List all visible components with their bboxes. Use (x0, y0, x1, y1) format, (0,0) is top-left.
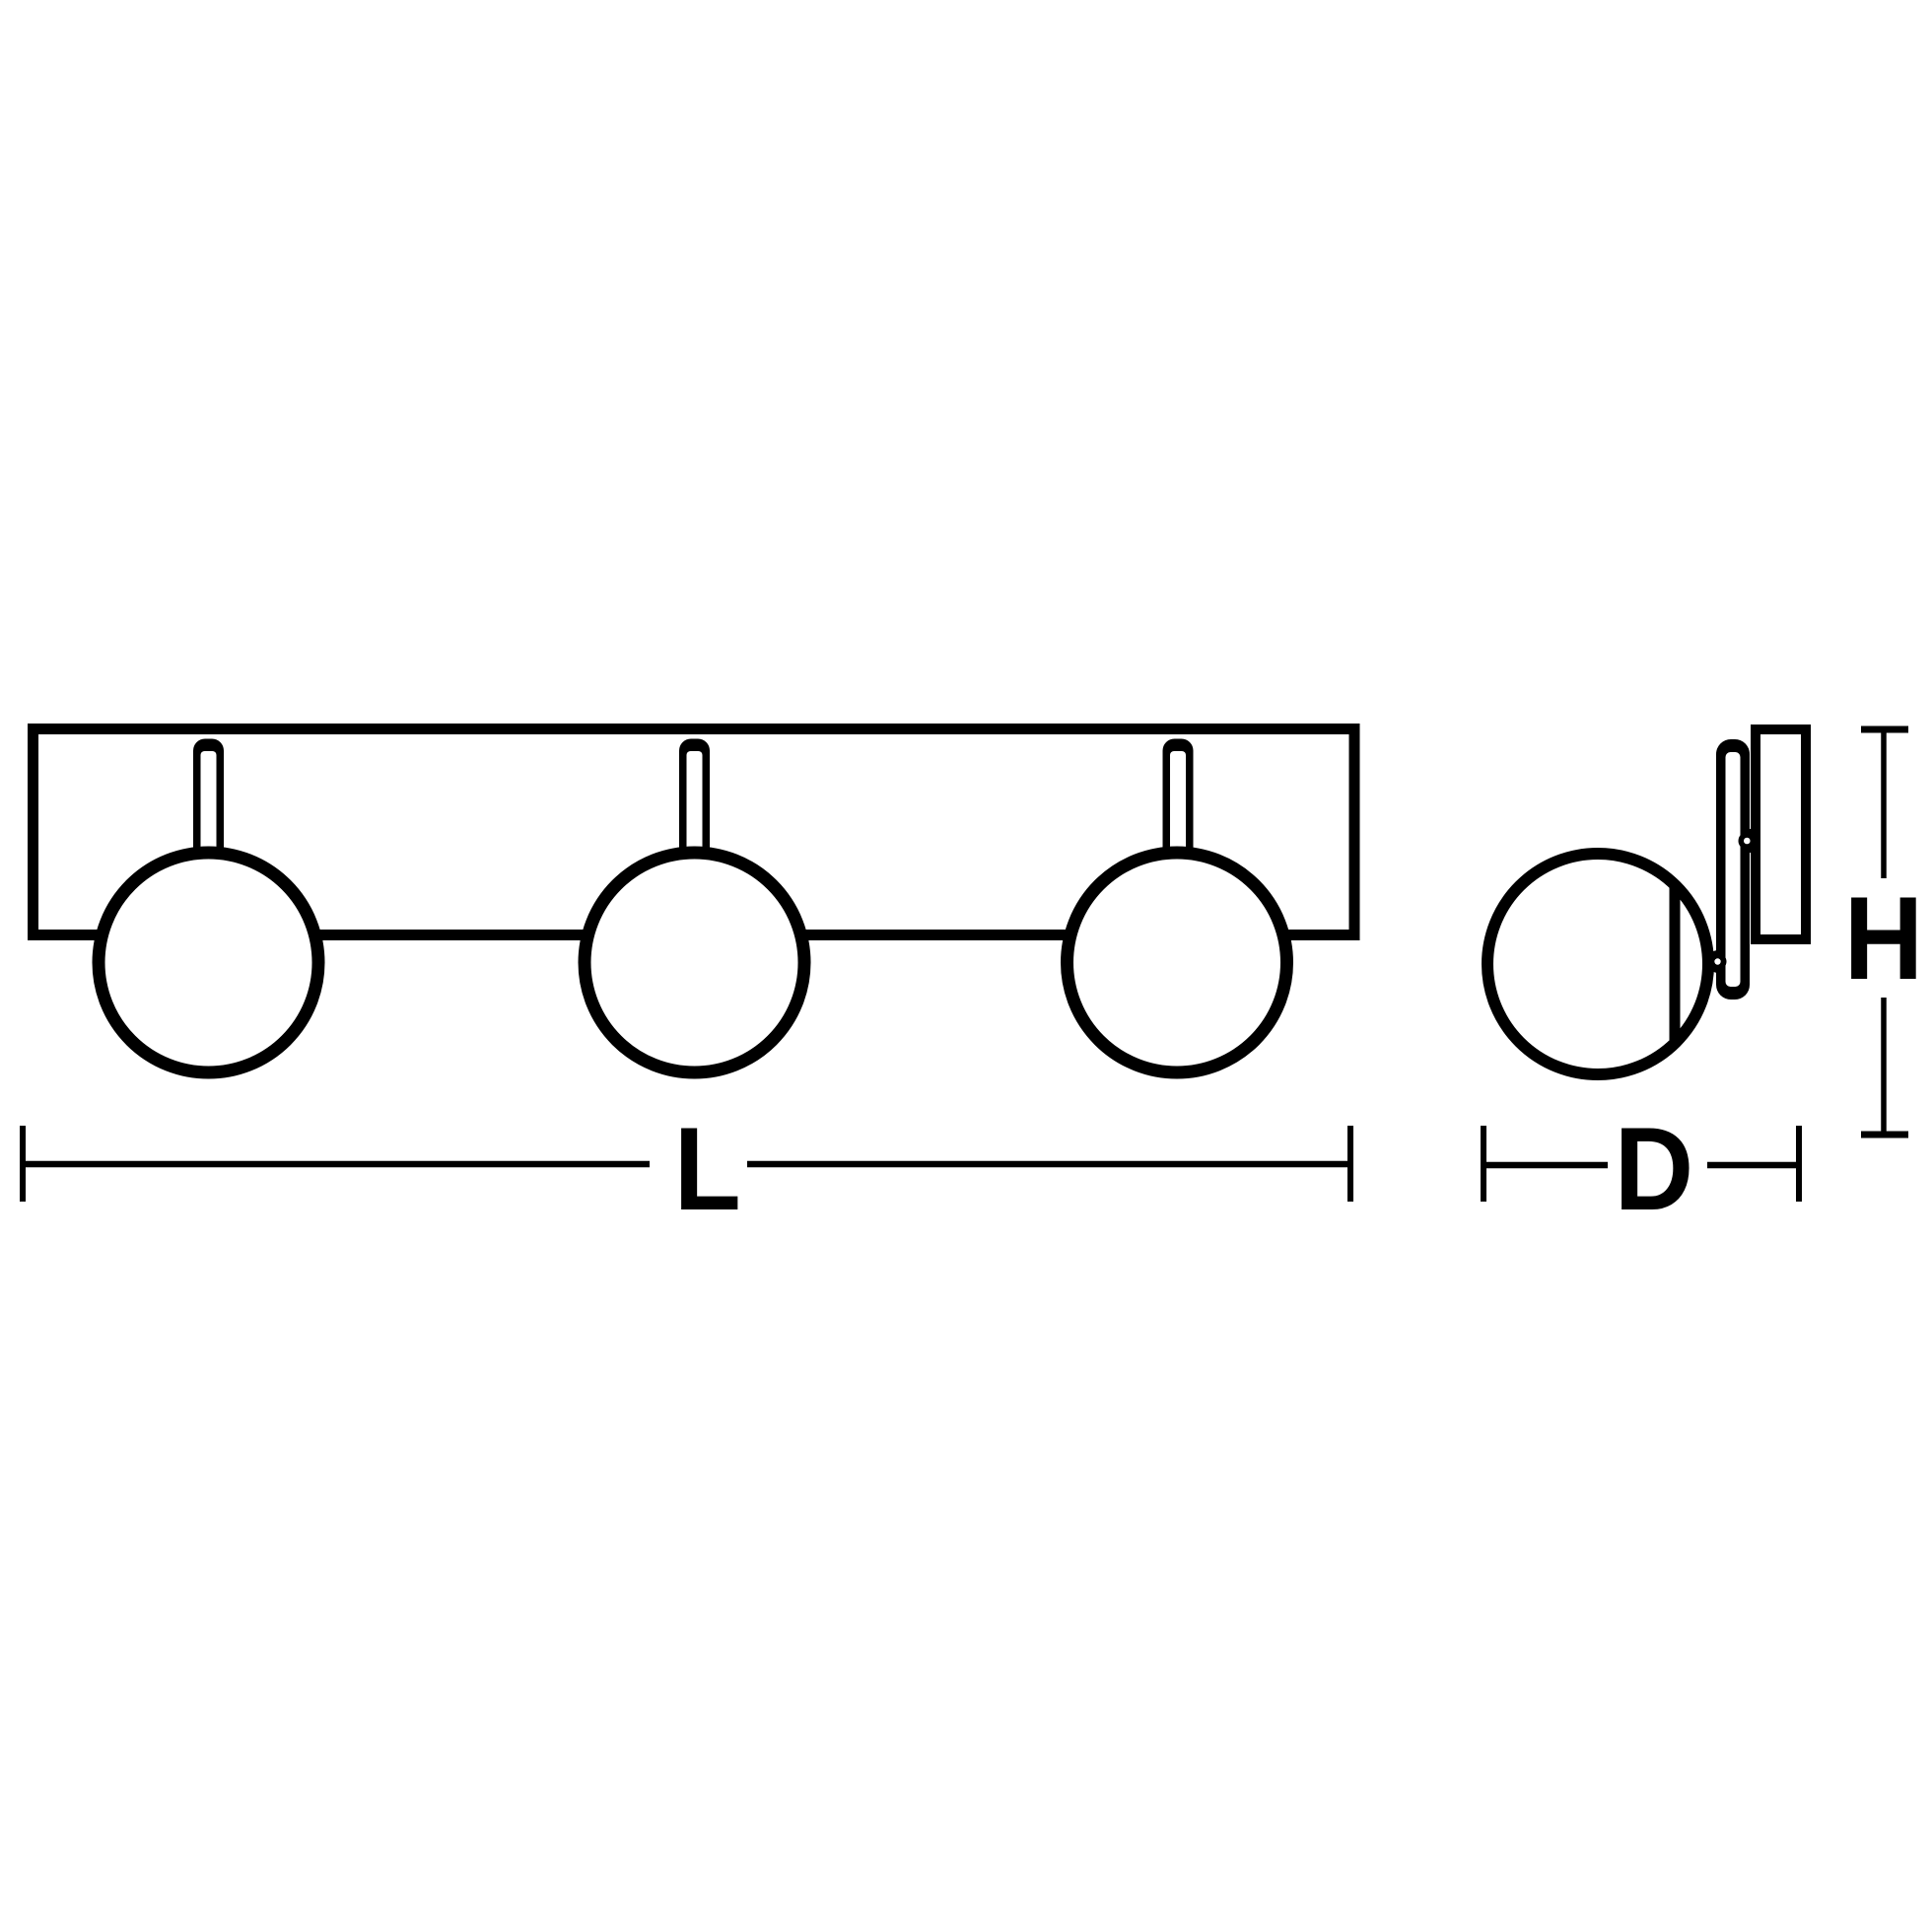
lower knob black disc (side view) (1707, 950, 1730, 973)
dimension H top tick (1861, 726, 1908, 733)
globe (side view) (1487, 854, 1708, 1074)
dimension L line right segment (747, 1161, 1350, 1168)
dimension L left tick (20, 1126, 26, 1202)
dimension H bottom tick (1861, 1132, 1908, 1138)
backplate (front view) (34, 729, 1355, 935)
wall plate (side view) (1756, 729, 1806, 939)
dimension L line left segment (23, 1161, 650, 1168)
stem arm plate (side view) (1716, 739, 1750, 1000)
globe 1 (front view) (99, 853, 318, 1072)
dimension D line left segment (1483, 1162, 1608, 1169)
upper knob over-ring (side view) (1739, 832, 1757, 850)
svg-text:D: D (1615, 1102, 1694, 1235)
stem 1 (front view) (193, 739, 224, 868)
svg-text:H: H (1844, 871, 1924, 1004)
stem 3 (front view) (1163, 739, 1194, 868)
dimension H upper segment (1881, 729, 1887, 878)
globe neck chord (side view) (1670, 885, 1681, 1040)
upper knob white center (side view) (1744, 838, 1751, 845)
globe 3 (front view) (1068, 853, 1287, 1072)
globe 2 (front view) (585, 853, 804, 1072)
stem 2 (front view) (679, 739, 710, 868)
lower knob white center (side view) (1714, 958, 1720, 964)
dimension D line right segment (1707, 1162, 1799, 1169)
dimension D right tick (1796, 1126, 1802, 1202)
svg-text:L: L (674, 1102, 741, 1235)
dimension L right tick (1347, 1126, 1353, 1202)
upper knob black disc (side view) (1735, 829, 1759, 854)
dimension H lower segment (1881, 998, 1887, 1135)
lower knob over-ring (side view) (1710, 953, 1727, 970)
dimension D left tick (1481, 1126, 1486, 1202)
